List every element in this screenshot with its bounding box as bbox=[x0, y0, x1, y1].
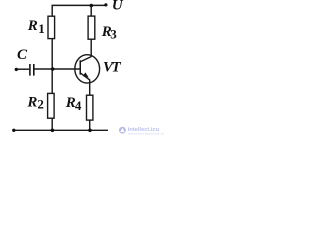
svg-text:2: 2 bbox=[37, 96, 44, 111]
svg-text:интеллектуальный портал: интеллектуальный портал bbox=[128, 132, 164, 136]
svg-text:3: 3 bbox=[110, 27, 117, 42]
svg-text:C: C bbox=[17, 47, 28, 63]
svg-text:R: R bbox=[27, 18, 38, 34]
svg-text:1: 1 bbox=[38, 21, 45, 36]
svg-text:R: R bbox=[26, 95, 37, 111]
svg-text:4: 4 bbox=[75, 98, 82, 113]
svg-text:U: U bbox=[112, 0, 124, 13]
svg-text:VT: VT bbox=[103, 60, 122, 76]
